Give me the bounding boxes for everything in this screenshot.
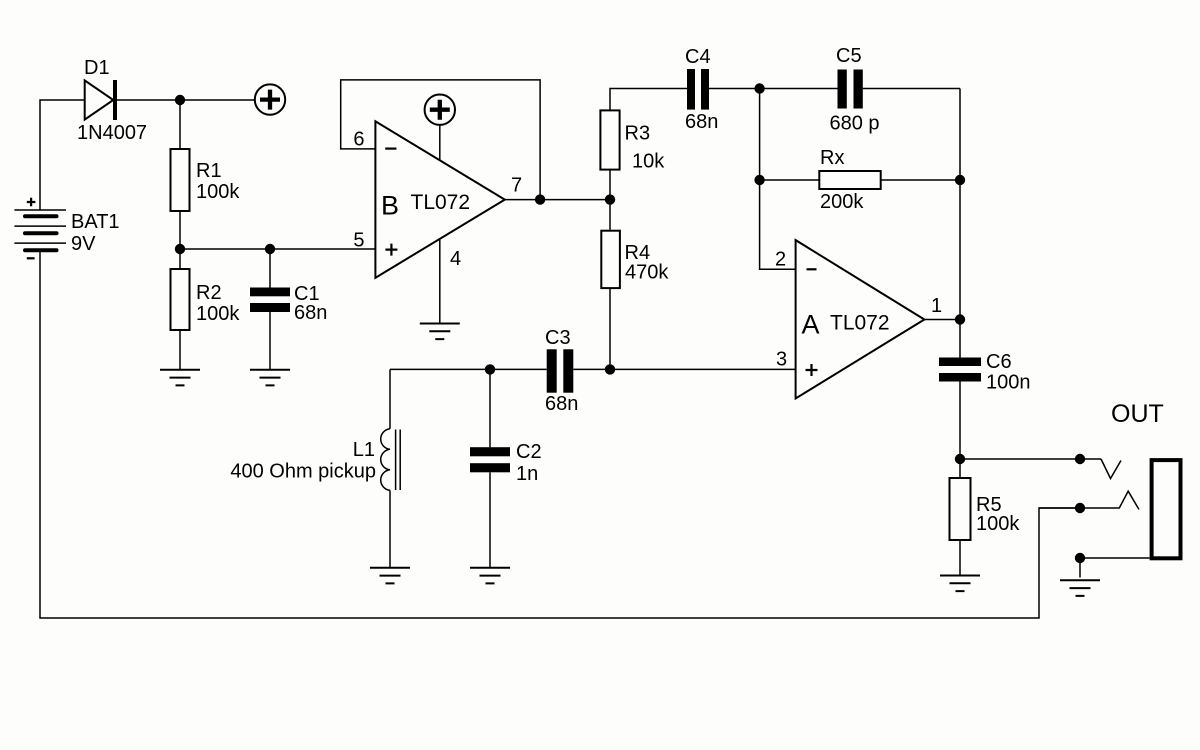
svg-text:100n: 100n: [986, 371, 1031, 393]
svg-text:400 Ohm pickup: 400 Ohm pickup: [230, 461, 376, 483]
svg-text:7: 7: [511, 175, 522, 197]
svg-text:TL072: TL072: [411, 191, 471, 214]
svg-text:4: 4: [450, 248, 461, 270]
svg-text:100k: 100k: [196, 181, 240, 203]
svg-text:B: B: [381, 191, 399, 221]
svg-text:68n: 68n: [685, 111, 718, 133]
svg-text:1n: 1n: [516, 463, 538, 485]
svg-text:100k: 100k: [976, 513, 1020, 535]
svg-text:100k: 100k: [196, 303, 240, 325]
svg-text:C4: C4: [685, 46, 711, 68]
svg-text:6: 6: [353, 128, 364, 150]
svg-text:R2: R2: [196, 282, 222, 304]
svg-text:A: A: [802, 310, 820, 340]
svg-text:9V: 9V: [71, 233, 96, 255]
svg-text:D1: D1: [84, 57, 110, 79]
svg-text:5: 5: [353, 230, 364, 252]
svg-text:470k: 470k: [625, 262, 669, 284]
svg-text:C3: C3: [545, 327, 571, 349]
svg-text:TL072: TL072: [830, 312, 890, 335]
svg-text:C6: C6: [986, 351, 1012, 373]
svg-text:C5: C5: [836, 45, 862, 67]
svg-text:68n: 68n: [545, 393, 578, 415]
svg-text:3: 3: [776, 349, 787, 371]
svg-text:R3: R3: [625, 122, 651, 144]
svg-text:R1: R1: [196, 160, 222, 182]
svg-text:68n: 68n: [294, 302, 327, 324]
svg-text:L1: L1: [353, 439, 375, 461]
svg-text:200k: 200k: [820, 191, 864, 213]
svg-text:10k: 10k: [632, 151, 665, 173]
svg-text:2: 2: [775, 249, 786, 271]
svg-text:Rx: Rx: [820, 147, 844, 169]
svg-text:1N4007: 1N4007: [77, 122, 147, 144]
svg-text:OUT: OUT: [1111, 400, 1164, 428]
svg-text:1: 1: [931, 295, 942, 317]
svg-text:BAT1: BAT1: [71, 211, 120, 233]
svg-text:C2: C2: [516, 441, 542, 463]
svg-text:680 p: 680 p: [830, 113, 880, 135]
